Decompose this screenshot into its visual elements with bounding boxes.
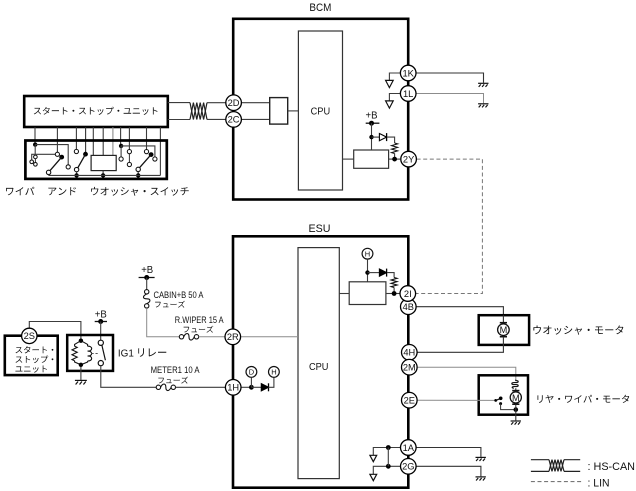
label start-stop unit small line2 [16,356,54,364]
relay contact arm [102,345,106,360]
box ESU electronic steering unit [233,236,408,487]
wire 2C to interface box [242,118,270,120]
wire unit to twist top rail [168,102,190,104]
node L8 branch [119,144,123,148]
connector 4H [402,345,418,361]
switch arm 3 pivot [136,167,140,171]
box BCM body control module [233,19,408,200]
switch arm 2 [77,154,85,169]
wire switch drop line x=57.4 [56,127,58,152]
svg-text:2G: 2G [402,462,414,472]
circle D node [246,367,257,378]
wire switch common bus [49,174,161,176]
wire pivot3 to bus [137,172,139,176]
wire twist to 2C [207,118,226,120]
twisted pair symbol HS-CAN [190,103,207,120]
svg-text:2C: 2C [228,115,240,125]
svg-text:2R: 2R [227,332,239,342]
wire node to diode (ESU) [368,272,380,274]
ground at 1L wire [478,104,488,108]
resistor R2 (ESU) [391,278,397,288]
switch arm 2 tip node [83,152,88,157]
label CABIN fuse [154,290,204,308]
power +B bar (CABIN) [139,277,155,279]
park switch arm [496,399,499,400]
switch arm 1 pivot [46,170,50,174]
box CPU (BCM) [298,31,342,190]
wire diode D3 to H [269,377,274,387]
wire H to driver (ESU) [367,259,369,282]
box start-stop unit [24,96,168,127]
wire +B to CABIN fuse [146,278,148,290]
wire switch drop line x=76.4 [75,127,77,149]
svg-text:4H: 4H [403,348,415,358]
wire unit to twist bottom rail [168,119,190,121]
wire interface box to CPU [288,110,299,112]
wire breaker to motor [515,388,517,390]
relay resistor branch [75,341,81,347]
wire pole1 down to contacts [34,145,36,155]
ground at 1K wire [478,83,488,87]
off-page arrow below 1L [386,101,394,108]
power +B bar (relay) [95,321,107,323]
node washer block bus [101,173,105,177]
label rear wiper motor (katakana) [538,395,630,403]
connector 2Y [401,151,417,167]
ground at 2G wire [476,477,486,481]
wire link node 1A to node 2G [387,448,389,467]
wire switch drop line x=120.6 [120,127,122,146]
svg-text:2Y: 2Y [403,154,414,164]
box washer motor [479,315,529,345]
relay contact bottom [98,361,103,366]
svg-text:CPU: CPU [311,105,331,117]
node at 2I [392,291,397,296]
wire 1K right to ground [416,73,483,83]
wire relay contact to METER1 fuse [101,366,156,388]
wire CABIN fuse down to R.WIPER fuse [147,308,180,337]
wire switch drop line x=129.4 [128,127,130,150]
contact circle L2 end [55,152,59,156]
wire switch drop line x=85.6 [85,127,87,154]
relay coil node top [79,339,83,343]
svg-text:2M: 2M [403,363,416,373]
node pivot3 bus [136,173,140,177]
wire node to diode D3 [251,386,261,388]
svg-text:BCM: BCM [309,2,331,14]
svg-text:+B: +B [95,309,107,320]
contact circle sw1 c [30,160,34,164]
svg-text:M: M [500,325,508,335]
svg-text:1A: 1A [403,443,415,453]
wire 2D to interface box [242,102,270,104]
wire washer block to bus [102,171,104,176]
park switch pivot contact [494,399,497,402]
legend HS-CAN twisted pair symbol [531,459,549,461]
wire METER1 fuse to 1H [176,386,226,388]
wire switch drop line x=160.4 [159,127,161,175]
wire switch drop line x=93.3 [92,127,94,155]
wire relay coil to ground [80,367,82,380]
contact circle L8 end [119,157,123,161]
svg-text:4B: 4B [403,302,414,312]
svg-text:H: H [365,250,370,259]
wire LIN dashed 2Y to 2I [416,159,483,293]
box CAN interface [270,98,288,125]
wire 2S up to relay coil [29,322,81,341]
svg-text:2S: 2S [24,331,35,341]
connector 4B [401,299,417,315]
wire D to node [250,377,252,387]
wire switch drop line x=112.9 [112,127,114,155]
svg-text:H: H [271,368,276,377]
connector 1K [400,65,416,81]
box wiper and washer switch [25,141,166,179]
wire 1L left to off-page arrow [389,94,400,101]
label METER1 fuse [151,365,200,384]
svg-text:: LIN: : LIN [588,477,610,489]
contact circle sw1 b [34,163,38,167]
wire L8 branch right and down [121,146,155,157]
connector 2E [402,392,418,408]
contact circle L9 end [127,150,131,154]
wire CPU to driver (BCM) [343,158,354,160]
svg-text:D: D [249,368,255,377]
wire node to diode (BCM) [372,136,380,138]
svg-text:M: M [512,393,520,403]
resistor R1 (BCM) [392,143,398,154]
box CPU (ESU) [298,248,339,479]
svg-text:1H: 1H [227,383,239,393]
wire +B down to relay contact [100,322,102,341]
svg-text:: HS-CAN: : HS-CAN [588,461,636,473]
label R.WIPER fuse [175,315,224,333]
contact circle L9 lower [127,162,131,166]
label start-stop unit small line3 [15,366,47,373]
box start-stop unit (2S) [5,336,58,375]
node diode branch (BCM) [369,135,373,139]
label wiper and washer switch (katakana) [6,187,34,196]
connector 2G [401,459,417,475]
wire R.WIPER fuse to 2R [199,336,225,338]
box rear wiper motor [479,375,528,414]
wire 1H to diode branch [241,386,251,388]
node rear motor bottom [514,407,519,412]
connector 1L [400,86,416,102]
legend LIN dashed line [531,481,581,483]
circuit breaker (rear wiper) [512,380,518,389]
connector 2S [22,328,37,343]
svg-text:+B: +B [141,265,153,276]
wire twist to 2D [207,102,226,104]
wire contact a to b [34,159,36,163]
wire switch drop line x=146.5 [146,127,148,150]
wire L8 down [120,146,122,157]
svg-text:METER1 10 A: METER1 10 A [151,365,200,375]
wire washer motor internal top [502,315,504,323]
wire +B down to driver (BCM) [371,123,373,150]
box output driver (BCM) [354,150,389,168]
svg-text:ESU: ESU [309,223,331,235]
connector 2I [400,286,416,302]
wire resistor to output node (ESU) [393,288,395,294]
connector 2C [226,112,242,128]
svg-text:2E: 2E [404,396,415,406]
relay coil node bottom [79,363,83,367]
diode D3 (1H) [261,383,268,391]
node at 2Y [392,157,397,162]
svg-text:2I: 2I [404,289,412,299]
relay mech link dashed [92,353,99,355]
contact circle sw1 a [34,155,38,159]
wire CPU to driver (ESU) [339,293,349,295]
svg-text:R.WIPER 15 A: R.WIPER 15 A [175,315,224,325]
wire 2G right to ground [416,466,481,476]
svg-text:CPU: CPU [309,361,329,373]
wire 2G left to off-page arrow [373,466,400,474]
off-page arrow below 1K [386,80,394,87]
connector 1H [225,380,241,396]
off-page arrow below 2G wire [370,474,377,480]
box washer switch block [91,155,116,170]
diode D1 (BCM flyback) [379,133,386,141]
park switch fixed contact upper [499,397,503,401]
switch arm 3 [139,155,151,169]
connector 2D [226,95,242,111]
label washer motor (katakana) [533,325,623,334]
ground below relay [75,380,87,384]
wire pivot1 to bus [48,174,50,177]
fuse METER1 10A [156,384,175,390]
wire driver to 2I [386,293,400,295]
contact circle L3 end [74,149,78,153]
motor M rear wiper [510,391,521,405]
off-page arrow below 1A wire [370,455,377,461]
connector 2M [402,359,418,375]
circle H node (ESU top) [362,248,373,259]
contact circle L10 end [144,150,148,154]
motor M washer [498,323,510,337]
svg-text:2D: 2D [228,98,240,108]
connector 2R [225,329,241,345]
box relay IG1 [67,335,113,371]
label start-stop unit small line1 [16,346,54,353]
label start-stop unit (katakana) [34,107,158,115]
node +B (CABIN) [144,275,149,280]
wire bracket to L2 contact [32,154,56,160]
wire pivot2 to bus [76,172,78,176]
wire 2E to park switch [417,399,495,401]
wire 4B to washer motor [416,307,503,316]
contact circle right branch [153,157,157,161]
wire 1L right to ground [416,94,483,104]
wire 1A left to off-page arrow [373,448,400,456]
node pivot2 bus [74,173,78,177]
wire driver to 2Y [389,158,401,160]
wire switch drop line x=103.2 [102,127,104,155]
power +B bar (BCM) [366,122,380,124]
wire 2M to rear wiper motor breaker [416,367,515,381]
svg-text:1L: 1L [403,89,413,99]
svg-text:IG1: IG1 [118,347,134,359]
connector 1A [401,440,417,456]
circle H node (1H) [269,367,280,378]
wire diode to resistor (ESU) [387,273,394,278]
relay coil branch [81,341,88,347]
wire 1A right to ground [416,448,481,457]
box output driver (ESU) [349,282,386,305]
wire motor bottom [515,404,517,409]
wire switch drop line x=35.0 [34,127,36,144]
switch arm 2 pivot [74,167,78,171]
svg-text:+B: +B [366,111,378,122]
svg-text:CABIN+B 50 A: CABIN+B 50 A [154,290,204,300]
svg-text:1K: 1K [403,68,415,78]
wire pole1 top run to right contact [35,145,68,165]
wire diode to resistor (BCM) [387,137,395,143]
switch arm 3 tip [149,152,154,157]
relay contact top [98,340,103,345]
ground at 1A wire [476,457,486,461]
ground below rear wiper motor [511,421,521,425]
wire resistor to output node (BCM) [394,154,396,160]
wire washer motor to 4H [417,337,503,353]
label IG1 relay [118,347,166,359]
node +B (BCM) [369,121,374,126]
node +B (relay) [98,319,103,324]
switch arm 1 tip [59,155,64,160]
node 2G link [386,464,391,469]
wire L9 contact pair [128,154,130,163]
wire rear motor to ground [515,410,517,421]
node diode branch (ESU) [365,270,369,274]
fuse R.WIPER 15A [179,334,198,340]
switch arm 1 [49,157,61,171]
wire park switch to motor bottom [501,404,516,410]
fuse CABIN+B 50A [143,290,149,309]
contact circle sw1 right [66,165,70,169]
diode D2 (ESU flyback) [379,269,386,277]
node switch pole 1 [33,142,37,146]
wire 1K left to off-page arrow [389,73,400,80]
node 1H branch [249,385,254,390]
node 1A link [386,445,391,450]
park switch fixed contact lower [499,402,502,405]
wire 2R to CPU [241,336,298,338]
